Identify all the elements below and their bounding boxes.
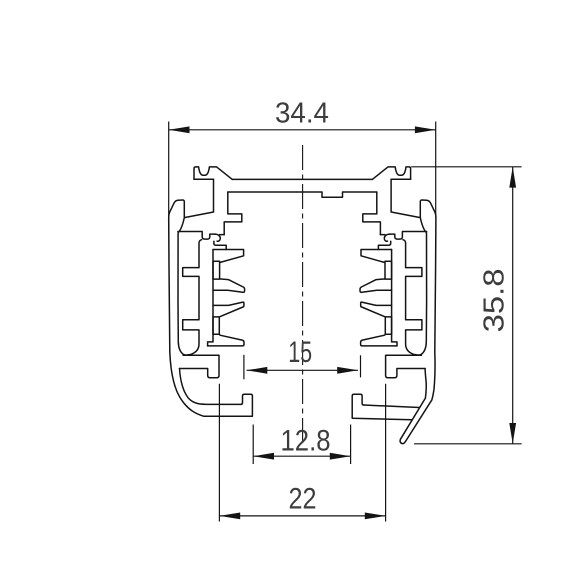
top wall upper surface <box>232 178 372 180</box>
arrow right <box>415 126 436 133</box>
arrow up <box>509 167 516 188</box>
left half <box>169 167 245 378</box>
dim line <box>253 455 350 457</box>
svg-text:15: 15 <box>288 336 312 369</box>
svg-text:22: 22 <box>289 483 317 516</box>
RIGHT bottom wall inner surface with lip <box>352 394 412 420</box>
LEFT bottom: inner face below shelf curving into bottom wall inner surface <box>180 369 241 405</box>
RIGHT bottom wall inner line to tail <box>364 405 420 408</box>
ext line right <box>350 425 352 465</box>
svg-text:35.8: 35.8 <box>479 268 511 332</box>
top wall lower surface with ground rib <box>228 192 377 197</box>
dim line left tail <box>247 369 359 371</box>
dim line <box>512 167 514 444</box>
arrow left <box>253 453 274 460</box>
tick right <box>360 355 362 377</box>
svg-text:34.4: 34.4 <box>275 98 329 130</box>
RIGHT wall lower outer face and tail outer edge <box>400 352 435 444</box>
svg-text:12.8: 12.8 <box>281 424 331 457</box>
arrow left <box>169 126 190 133</box>
LEFT outer wall bottom corner <box>170 352 204 416</box>
ext line left <box>168 122 170 217</box>
ext line top <box>411 166 521 168</box>
arrow right <box>365 513 386 520</box>
arrow left <box>247 367 268 374</box>
dim line <box>219 515 385 517</box>
ext line right <box>385 384 387 522</box>
ext line right <box>435 122 437 218</box>
arrow down <box>509 423 516 444</box>
LEFT bottom wall: lip inner edge, lip top, lip outer edge, bottom outer surface <box>204 394 252 416</box>
tick left <box>243 355 245 380</box>
arrow left <box>219 513 240 520</box>
arrow right <box>330 453 351 460</box>
ext line left <box>218 384 220 522</box>
ext line bottom <box>414 443 522 445</box>
dim line <box>169 129 436 131</box>
right half (mirror) <box>360 167 436 378</box>
arrow right <box>337 367 358 374</box>
ext line left <box>252 425 254 465</box>
